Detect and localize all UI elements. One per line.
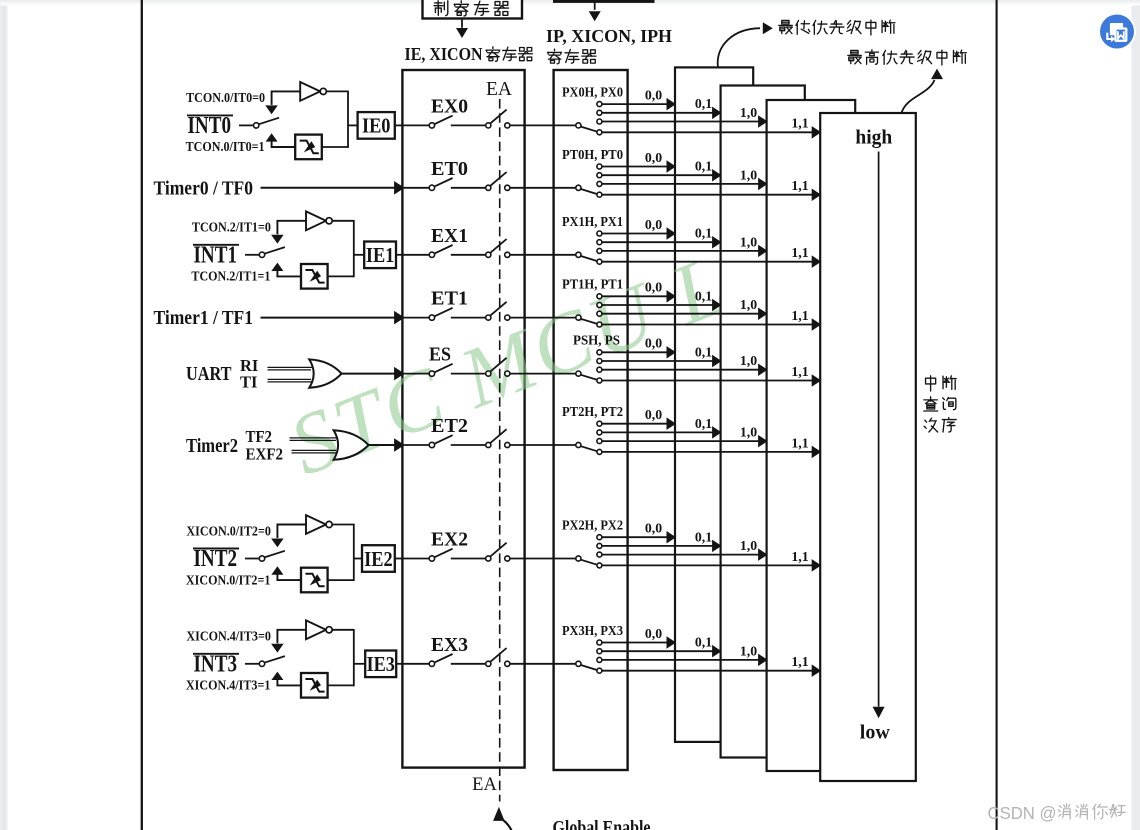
- arrow IT=0 position: [265, 105, 278, 114]
- svg-text:0,0: 0,0: [645, 336, 662, 351]
- arrow down to IP registers: [589, 3, 601, 21]
- switch EX2: [429, 530, 468, 562]
- label TCON.2/IT1=1: [191, 269, 270, 284]
- svg-text:TCON.2/IT1=1: TCON.2/IT1=1: [191, 269, 270, 284]
- arrow IT=0 position: [271, 235, 284, 244]
- wire into ET2 switch: [404, 444, 430, 446]
- svg-text:0,0: 0,0: [645, 217, 662, 232]
- svg-text:PT0H, PT0: PT0H, PT0: [562, 147, 623, 162]
- svg-text:XICON.0/IT2=0: XICON.0/IT2=0: [186, 523, 271, 538]
- inverter buffer INT3: [306, 620, 332, 639]
- label INT1 (active low): [193, 242, 239, 268]
- arrow IT=1 position: [271, 566, 283, 581]
- svg-text:1,0: 1,0: [740, 353, 757, 368]
- svg-text:PT1H, PT1: PT1H, PT1: [562, 277, 623, 292]
- switch ET0: [429, 159, 468, 191]
- priority wire 1,1 of EX2: [602, 549, 821, 572]
- label PSH, PS: [573, 333, 620, 348]
- svg-text:1,1: 1,1: [791, 245, 808, 260]
- svg-text:ES: ES: [429, 345, 451, 366]
- wire buffer out INT3: [332, 629, 354, 686]
- switch ES: [429, 345, 453, 377]
- priority wire 0,0 of ET1: [602, 280, 676, 303]
- priority cascade box 0,0: [675, 67, 753, 742]
- top soft shadow band: [0, 0, 1140, 6]
- priority wire 1,1 of ET2: [602, 435, 821, 458]
- label RI: [240, 356, 258, 375]
- priority wire 0,1 of EX1: [602, 226, 722, 249]
- svg-text:0,0: 0,0: [645, 407, 662, 422]
- label low: [860, 722, 891, 744]
- label XICON.0/IT2=1: [186, 572, 271, 587]
- svg-text:EA: EA: [472, 775, 497, 795]
- CSDN watermark text: [988, 803, 1126, 823]
- priority wire 1,0 of EX0: [602, 105, 768, 128]
- curve to lowest priority arrow: [718, 22, 773, 67]
- priority wire 1,0 of ET2: [602, 425, 768, 448]
- priority wire 1,0 of ET1: [602, 297, 768, 320]
- svg-text:1,0: 1,0: [740, 538, 757, 553]
- priority wire 1,0 of ES: [602, 353, 768, 376]
- switch EX3: [429, 635, 468, 667]
- switch EX0: [429, 96, 468, 128]
- arrow IT=0 position: [271, 644, 284, 653]
- svg-text:IP, XICON, IPH: IP, XICON, IPH: [546, 26, 672, 46]
- wire IE2 to IE register: [395, 558, 404, 560]
- wire EX2 row to priority selector: [510, 558, 576, 560]
- switch ET2: [429, 416, 468, 448]
- interrupt polling box (high/low): [820, 113, 916, 781]
- wire EX0 to EA switch: [451, 124, 486, 126]
- EA label (top): [486, 79, 512, 100]
- wire UART to ES: [341, 367, 404, 381]
- wire INT0 to switch: [239, 124, 254, 126]
- priority wire 0,0 of ES: [602, 336, 676, 359]
- global enable arrow up: [493, 807, 511, 830]
- wire INT2 to switch: [245, 558, 259, 560]
- priority selector ES: [576, 350, 602, 383]
- svg-text:PX1H, PX1: PX1H, PX1: [562, 214, 623, 229]
- svg-text:EA: EA: [486, 79, 512, 100]
- wire into EX0 switch: [404, 124, 430, 126]
- svg-text:0,0: 0,0: [645, 521, 662, 536]
- svg-text:XICON.0/IT2=1: XICON.0/IT2=1: [186, 572, 271, 587]
- label PT0H, PT0: [562, 147, 623, 162]
- right gray scrollbar strip: [1132, 0, 1140, 830]
- priority selector ET1: [576, 294, 602, 327]
- inverter buffer INT1: [306, 211, 332, 230]
- label IE, XICON寄存器: [405, 44, 533, 64]
- wire IE0 to IE register: [395, 124, 404, 126]
- label PX3H, PX3: [562, 623, 623, 638]
- priority wire 1,1 of ET1: [602, 308, 821, 331]
- wire TF2 (double): [290, 438, 339, 441]
- wire ES to EA switch: [451, 373, 486, 375]
- svg-text:IE0: IE0: [362, 114, 391, 138]
- wire INT3 to switch: [245, 663, 259, 665]
- wire IE1 to IE register: [396, 254, 404, 256]
- priority selector EX3: [576, 640, 602, 673]
- svg-text:Timer2: Timer2: [186, 436, 238, 457]
- EA switch on EX2 row: [486, 543, 510, 561]
- wire to IE2 flag: [354, 558, 362, 560]
- label 最高优先级中断: [848, 50, 966, 65]
- svg-text:1,0: 1,0: [740, 105, 757, 120]
- flag box IE0: [358, 112, 395, 139]
- EA switch on ET1 row: [486, 302, 510, 320]
- svg-text:0,1: 0,1: [695, 635, 712, 650]
- label XICON.0/IT2=0: [186, 523, 271, 538]
- svg-text:INT3: INT3: [194, 651, 238, 677]
- svg-text:TI: TI: [240, 372, 257, 391]
- inverter buffer INT0: [300, 82, 326, 101]
- priority selector ET0: [576, 164, 602, 197]
- priority wire 0,0 of EX3: [602, 626, 676, 649]
- wire IE3 to IE register: [396, 663, 404, 665]
- svg-text:1,1: 1,1: [791, 435, 808, 450]
- priority wire 0,0 of ET2: [602, 407, 676, 430]
- svg-text:EX3: EX3: [431, 635, 468, 656]
- svg-text:0,1: 0,1: [695, 96, 712, 111]
- wire edge detector out INT3: [328, 684, 354, 686]
- svg-text:0,0: 0,0: [645, 88, 662, 103]
- svg-text:1,0: 1,0: [740, 234, 757, 249]
- svg-text:EX2: EX2: [431, 530, 468, 551]
- EA switch on EX1 row: [486, 239, 510, 257]
- switch ET1: [429, 289, 468, 321]
- svg-text:1,0: 1,0: [740, 643, 757, 658]
- wire to IE1 flag: [354, 254, 364, 256]
- svg-text:TCON.0/IT0=0: TCON.0/IT0=0: [186, 90, 265, 105]
- priority selector EX1: [576, 231, 602, 264]
- priority selector EX2: [576, 535, 602, 568]
- wire EX1 to EA switch: [451, 254, 486, 256]
- wire ET1 to EA switch: [451, 317, 486, 319]
- priority wire 1,1 of ES: [602, 364, 821, 387]
- svg-text:TCON.2/IT1=0: TCON.2/IT1=0: [192, 220, 271, 235]
- priority wire 0,1 of EX3: [602, 635, 722, 658]
- arrow IT=1 position: [271, 672, 283, 687]
- svg-text:0,1: 0,1: [695, 529, 712, 544]
- wire ET1 row to priority selector: [510, 317, 576, 319]
- priority wire 0,1 of ET2: [602, 416, 722, 439]
- wire into ET1 switch: [404, 317, 430, 319]
- label TCON.2/IT1=0: [192, 220, 271, 235]
- register box 制寄存器 (cut at top): [423, 0, 523, 19]
- or-gate UART: [309, 359, 341, 387]
- svg-text:TF2: TF2: [246, 427, 273, 446]
- EA switch on ET0 row: [486, 172, 510, 190]
- svg-text:1,1: 1,1: [791, 308, 808, 323]
- svg-text:1,0: 1,0: [740, 167, 757, 182]
- wire into ET0 switch: [404, 187, 430, 189]
- wire into EX3 switch: [404, 663, 430, 665]
- label TF2: [246, 427, 273, 446]
- svg-text:1,1: 1,1: [791, 364, 808, 379]
- label 最低优先级中断: [779, 20, 895, 35]
- svg-text:1,1: 1,1: [791, 116, 808, 131]
- falling-edge detector INT1: [301, 264, 328, 289]
- svg-text:PX3H, PX3: PX3H, PX3: [562, 623, 623, 638]
- wire EX0 row to priority selector: [510, 124, 576, 126]
- or-gate Timer2: [334, 430, 369, 460]
- left gray edge strip: [0, 0, 8, 830]
- flag box IE1: [364, 242, 396, 269]
- wire ET0 row to priority selector: [510, 187, 576, 189]
- cut-off box bottom bar (top middle): [553, 0, 655, 3]
- svg-text:1,1: 1,1: [791, 549, 808, 564]
- wire edge detector out INT1: [328, 275, 354, 277]
- svg-text:low: low: [860, 722, 891, 744]
- flag box IE2: [362, 545, 395, 572]
- wire to edge detector INT1: [277, 275, 302, 277]
- svg-text:PX2H, PX2: PX2H, PX2: [562, 518, 623, 533]
- wire EX3 row to priority selector: [510, 663, 576, 665]
- wire edge detector out INT2: [328, 579, 354, 581]
- inverter buffer INT2: [306, 515, 332, 534]
- wire RI (double): [268, 367, 314, 370]
- label PT2H, PT2: [562, 404, 623, 419]
- priority wire 1,0 of EX2: [602, 538, 768, 561]
- svg-text:ET1: ET1: [431, 289, 468, 310]
- priority wire 0,0 of EX2: [602, 521, 676, 544]
- label XICON.4/IT3=0: [186, 629, 271, 644]
- label TI: [240, 372, 257, 391]
- svg-text:0,0: 0,0: [645, 626, 662, 641]
- priority wire 0,1 of EX2: [602, 529, 722, 552]
- page left border: [141, 0, 143, 830]
- wire to edge detector INT0: [271, 146, 296, 148]
- label TCON.0/IT0=1: [186, 139, 265, 154]
- label INT0 (active low): [187, 113, 233, 139]
- svg-text:CSDN @: CSDN @: [988, 803, 1057, 823]
- label EXF2: [246, 445, 284, 464]
- wire INT1 to switch: [245, 254, 259, 256]
- svg-text:Timer0 / TF0: Timer0 / TF0: [154, 177, 254, 199]
- svg-text:0,1: 0,1: [695, 344, 712, 359]
- CSDN floating share icon: [1098, 13, 1136, 51]
- priority wire 1,0 of EX1: [602, 234, 768, 257]
- wire ET2 to EA switch: [451, 444, 486, 446]
- wire EX1 row to priority selector: [510, 254, 576, 256]
- svg-text:0,0: 0,0: [645, 150, 662, 165]
- wire buffer out INT2: [332, 524, 354, 581]
- svg-text:EX1: EX1: [431, 226, 468, 247]
- priority wire 1,0 of ET0: [602, 167, 768, 190]
- svg-text:XICON.4/IT3=1: XICON.4/IT3=1: [186, 678, 271, 693]
- priority wire 0,1 of EX0: [602, 96, 722, 119]
- svg-text:IE1: IE1: [366, 243, 395, 267]
- priority wire 1,1 of ET0: [602, 178, 821, 201]
- label Timer2: [186, 436, 238, 457]
- label 寄存器 (line 2): [548, 49, 596, 64]
- falling-edge detector INT0: [295, 135, 322, 160]
- svg-text:EX0: EX0: [431, 96, 468, 117]
- edge-select switch INT3: [259, 656, 285, 666]
- svg-text:PT2H, PT2: PT2H, PT2: [562, 404, 623, 419]
- label PX1H, PX1: [562, 214, 623, 229]
- svg-text:0,1: 0,1: [695, 416, 712, 431]
- priority cascade box 0,1: [721, 86, 805, 758]
- svg-text:Global Enable: Global Enable: [553, 817, 651, 830]
- wire ET0 to EA switch: [451, 187, 486, 189]
- wire XICON.4/IT3=0 corner: [277, 630, 307, 644]
- switch EX1: [429, 226, 468, 258]
- svg-text:IE2: IE2: [364, 547, 393, 571]
- wire edge detector out INT0: [322, 146, 348, 148]
- EA label (bottom): [472, 775, 497, 795]
- edge-select switch INT2: [259, 551, 285, 561]
- EA switch on EX3 row: [486, 648, 510, 666]
- EA switch on ES row: [486, 358, 510, 376]
- wire into EX1 switch: [404, 254, 430, 256]
- EA global enable dashed line: [499, 99, 501, 802]
- priority wire 0,1 of ET1: [602, 288, 722, 311]
- arrow IT=1 position: [271, 263, 283, 278]
- wire buffer out INT0: [326, 91, 348, 148]
- arrow from 制寄存器 box down: [456, 19, 468, 39]
- svg-text:ET2: ET2: [431, 416, 468, 437]
- wire TI (double): [268, 379, 314, 382]
- priority cascade box 1,0: [767, 100, 856, 771]
- wire EX3 to EA switch: [451, 663, 486, 665]
- label Timer1 / TF1: [154, 307, 254, 329]
- svg-text:0,1: 0,1: [695, 226, 712, 241]
- label 中断查询次序: [924, 376, 956, 432]
- priority selector ET2: [576, 421, 602, 454]
- svg-text:high: high: [855, 128, 892, 149]
- svg-text:IE, XICON: IE, XICON: [405, 44, 483, 64]
- svg-text:PSH, PS: PSH, PS: [573, 333, 620, 348]
- priority wire 1,1 of EX0: [602, 116, 821, 139]
- EA switch on ET2 row: [486, 429, 510, 447]
- priority selector EX0: [576, 102, 602, 135]
- label TCON.0/IT0=0: [186, 90, 265, 105]
- svg-text:PX0H, PX0: PX0H, PX0: [562, 84, 623, 99]
- wire Timer0 / TF0: [261, 181, 405, 195]
- svg-text:Timer1 / TF1: Timer1 / TF1: [154, 307, 254, 329]
- label UART: [186, 364, 232, 385]
- priority wire 0,0 of ET0: [602, 150, 676, 173]
- arrow IT=0 position: [271, 539, 284, 548]
- edge-select switch INT1: [259, 247, 285, 257]
- svg-text:IE3: IE3: [366, 652, 395, 676]
- svg-text:1,1: 1,1: [791, 654, 808, 669]
- wire XICON.0/IT2=0 corner: [277, 525, 307, 539]
- svg-text:INT1: INT1: [194, 242, 238, 268]
- EA switch on EX0 row: [486, 110, 510, 128]
- label PT1H, PT1: [562, 277, 623, 292]
- svg-text:EXF2: EXF2: [246, 445, 284, 464]
- svg-text:ET0: ET0: [431, 159, 468, 180]
- svg-text:XICON.4/IT3=0: XICON.4/IT3=0: [186, 629, 271, 644]
- label XICON.4/IT3=1: [186, 678, 271, 693]
- label INT3 (active low): [193, 651, 239, 677]
- wire ET2 row to priority selector: [510, 444, 576, 446]
- IP / XICON / IPH priority register column box: [554, 70, 628, 770]
- wire TCON.0/IT0=0 corner: [271, 91, 301, 105]
- wire TCON.2/IT1=0 corner: [277, 221, 307, 235]
- wire to IE3 flag: [354, 663, 365, 665]
- wire into ES switch: [404, 373, 430, 375]
- priority wire 0,1 of ET0: [602, 159, 722, 182]
- priority wire 1,1 of EX3: [602, 654, 821, 677]
- wire Timer1 / TF1: [261, 311, 405, 325]
- flag box IE3: [365, 651, 396, 678]
- label Global Enable: [553, 817, 651, 830]
- arrow IT=1 position: [266, 133, 278, 148]
- svg-text:1,0: 1,0: [740, 297, 757, 312]
- edge-select switch INT0: [254, 118, 280, 128]
- wire EXF2 (double): [292, 450, 339, 453]
- label PX2H, PX2: [562, 518, 623, 533]
- wire Timer2 to ET2: [368, 438, 404, 452]
- wire to edge detector INT3: [277, 684, 302, 686]
- wire ES row to priority selector: [510, 373, 576, 375]
- priority wire 1,1 of EX1: [602, 245, 821, 268]
- label high: [855, 128, 892, 149]
- svg-text:1,0: 1,0: [740, 425, 757, 440]
- wire to IE0 flag: [348, 124, 358, 126]
- watermark STC MCU Lit: [277, 215, 793, 494]
- label IP, XICON, IPH: [546, 26, 672, 46]
- priority wire 0,0 of EX1: [602, 217, 676, 240]
- priority wire 0,1 of ES: [602, 344, 722, 367]
- IE / XICON enable register column box: [402, 70, 524, 768]
- wire into EX2 switch: [404, 558, 430, 560]
- wire to edge detector INT2: [277, 579, 302, 581]
- wire EX2 to EA switch: [451, 558, 486, 560]
- label PX0H, PX0: [562, 84, 623, 99]
- falling-edge detector INT3: [301, 673, 328, 698]
- curve to highest priority arrow: [902, 69, 944, 113]
- polling order arrow: [873, 152, 885, 719]
- svg-text:UART: UART: [186, 364, 232, 385]
- label INT2 (active low): [193, 546, 239, 572]
- svg-text:0,1: 0,1: [695, 159, 712, 174]
- svg-text:TCON.0/IT0=1: TCON.0/IT0=1: [186, 139, 265, 154]
- label Timer0 / TF0: [154, 177, 254, 199]
- wire buffer out INT1: [332, 220, 354, 277]
- priority wire 1,0 of EX3: [602, 643, 768, 666]
- svg-text:0,0: 0,0: [645, 280, 662, 295]
- falling-edge detector INT2: [301, 568, 328, 593]
- priority wire 0,0 of EX0: [602, 88, 676, 111]
- page right border: [996, 0, 998, 830]
- svg-text:INT2: INT2: [194, 546, 238, 572]
- svg-text:INT0: INT0: [188, 113, 232, 139]
- svg-text:0,1: 0,1: [695, 288, 712, 303]
- svg-text:1,1: 1,1: [791, 178, 808, 193]
